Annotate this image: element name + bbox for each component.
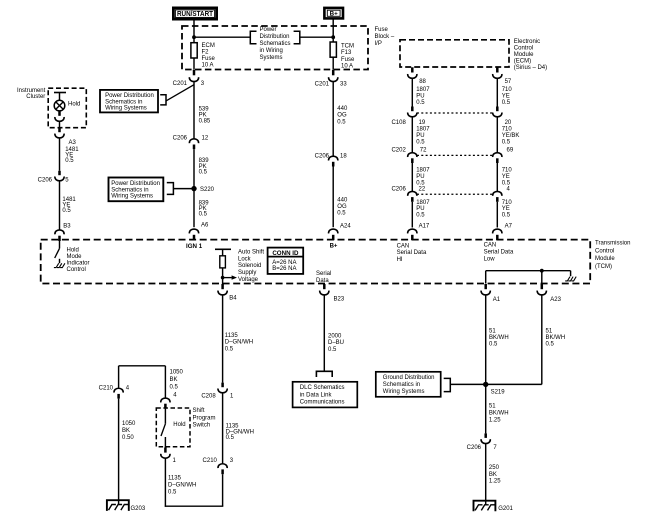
wire fuse F2 down to C201 [193,58,195,70]
wire 710 YE/BK (C108 to C202) [497,117,519,152]
wire C210-3 down to shift switch net [165,474,224,506]
svg-text:Ground Distribution: Ground Distribution [383,375,435,381]
svg-text:F2: F2 [202,50,210,56]
svg-text:Hold: Hold [173,422,185,428]
svg-text:72: 72 [420,148,427,154]
svg-text:1135: 1135 [168,475,182,481]
svg-text:YE: YE [502,206,510,212]
svg-text:0.5: 0.5 [489,342,498,348]
svg-text:710: 710 [502,200,513,206]
svg-text:TCM: TCM [341,43,354,49]
svg-text:C206: C206 [467,445,482,451]
label Fuse Block - I/P [375,27,395,47]
hold mode indicator switch inside TCM [55,241,60,263]
svg-text:Hold: Hold [68,101,80,107]
svg-text:Shift: Shift [193,408,205,414]
svg-text:0.5: 0.5 [416,213,425,219]
svg-text:A17: A17 [419,223,430,229]
connector A3 below cluster [55,127,77,146]
CONN ID table [268,248,304,274]
svg-text:S219: S219 [491,389,506,395]
svg-text:Systems: Systems [260,55,283,61]
svg-text:Fuse: Fuse [375,27,389,33]
ground G203 [107,500,146,512]
splice S219 [483,382,505,396]
bracket of ground distribution callout [444,378,451,391]
wire 1481 YE 0.5 upper [60,138,80,171]
svg-text:A7: A7 [505,223,513,229]
shift program switch dashed box [156,408,190,447]
svg-text:1.25: 1.25 [489,418,501,424]
connector C208 pin 1 [201,383,234,400]
svg-text:57: 57 [505,79,512,85]
svg-text:88: 88 [419,79,426,85]
svg-text:440: 440 [337,198,348,204]
svg-text:G201: G201 [498,506,513,512]
label Auto Shift Lock Solenoid Supply Voltage [238,249,264,282]
svg-text:1050: 1050 [122,421,136,427]
connector C210 pin 3 [203,458,234,474]
label Electronic Control Module (ECM) [514,39,547,71]
wire 1807 PU (C202 to C206) [412,163,430,191]
svg-text:BK/WH: BK/WH [546,335,566,341]
internal connection at hold mode switch [54,263,59,267]
svg-text:Electronic: Electronic [514,39,540,45]
svg-text:51: 51 [546,328,553,334]
DLC harness fork [316,371,332,377]
svg-text:IGN 1: IGN 1 [186,243,203,250]
svg-text:OG: OG [337,113,347,119]
wire callout to S219 [451,383,486,385]
svg-text:C206: C206 [391,187,406,193]
svg-text:C201: C201 [173,81,188,87]
svg-text:1135: 1135 [225,333,239,339]
svg-text:A1: A1 [493,297,501,303]
junction on B+ feed [331,35,335,39]
svg-text:Transmission: Transmission [595,240,630,246]
wire 51 BK/WH 1.25 [486,384,509,433]
svg-text:BK/WH: BK/WH [489,411,509,417]
connector C206 pins 22/4 [391,187,510,202]
svg-text:BK: BK [170,377,178,383]
svg-text:B23: B23 [334,296,345,302]
svg-text:D–GN/WH: D–GN/WH [168,482,196,488]
svg-text:Solenoid: Solenoid [238,263,261,269]
terminal A1 connector [481,284,501,303]
junction on RUN/START feed [192,35,196,39]
wire 440 OG 0.5 upper [333,82,348,156]
wire 1050 net top link [119,366,184,398]
wire callout to S220 [173,188,194,190]
svg-text:12: 12 [202,136,209,142]
svg-text:0.5: 0.5 [502,139,511,145]
svg-text:Power: Power [260,27,277,33]
svg-text:PU: PU [416,93,424,99]
svg-text:10 A: 10 A [202,62,214,68]
svg-text:Wiring Systems: Wiring Systems [383,389,425,395]
terminal B3 connector at TCM [55,230,64,241]
svg-text:0.5: 0.5 [226,435,235,441]
connector C206 pin 7 [467,433,498,451]
switch contacts and blade [161,409,186,448]
svg-text:C206: C206 [315,154,330,160]
wire 710 YE (C202 to C206) [497,163,512,191]
svg-text:Fuse: Fuse [202,56,216,62]
electronic control module ECM dashed box [400,40,509,67]
terminal B4 connector [218,284,237,301]
callout DLC Schematics box [293,382,358,408]
svg-text:1.25: 1.25 [489,479,501,485]
svg-text:0.5: 0.5 [416,180,425,186]
wire RUN/START to fuse F2 [193,19,195,43]
svg-text:Hold: Hold [67,247,79,253]
svg-text:1807: 1807 [416,200,430,206]
svg-text:OG: OG [337,204,347,210]
wire 1135 D-GN/WH 0.5 (C208 to C210) [223,393,254,463]
wire 51 BK/WH 0.5 (A1) [486,295,509,384]
connector C108 pins 19/20 [391,107,511,127]
svg-text:B4: B4 [229,295,237,301]
svg-text:0.5: 0.5 [170,385,179,391]
svg-text:A6: A6 [201,223,209,229]
connector C206 pin 12 [173,136,209,150]
bracket left of fuse-block callout [250,31,256,43]
svg-text:PU: PU [416,174,424,180]
svg-text:CAN: CAN [484,242,497,248]
label CAN Serial Data HI [397,243,427,263]
svg-text:Fuse: Fuse [341,57,355,63]
svg-text:Power Distribution: Power Distribution [111,181,160,187]
wire 440 OG 0.5 lower [333,167,351,230]
svg-text:in Wiring: in Wiring [260,48,283,54]
svg-text:A23: A23 [550,297,561,303]
svg-text:0.5: 0.5 [328,347,337,353]
svg-text:ECM: ECM [202,43,215,49]
svg-text:Communications: Communications [300,400,345,406]
svg-text:B3: B3 [63,224,71,230]
svg-text:33: 33 [340,82,347,88]
svg-text:Control: Control [595,248,614,254]
wire callout to F13 junction [300,36,333,38]
svg-text:(ECM): (ECM) [514,59,531,65]
lead line callout to wire 539 [166,85,194,101]
instrument cluster dashed box [48,88,86,128]
svg-text:B+: B+ [330,243,338,249]
wire B+ to fuse F13 [332,18,334,42]
svg-text:D–GN/WH: D–GN/WH [225,340,253,346]
svg-text:BK/WH: BK/WH [489,335,509,341]
svg-text:0.5: 0.5 [62,208,71,214]
svg-text:Serial: Serial [316,271,331,277]
svg-text:710: 710 [502,168,513,174]
svg-text:D–BU: D–BU [328,340,344,346]
svg-text:PU: PU [416,133,424,139]
svg-text:YE: YE [502,174,510,180]
label Hold Mode Indicator Control [67,247,90,273]
svg-text:YE: YE [502,93,510,99]
callout Power Distribution (fuse block) [260,27,291,61]
svg-text:C108: C108 [391,120,406,126]
svg-text:Power Distribution: Power Distribution [105,93,154,99]
terminal A23 connector [537,284,561,303]
svg-text:Low: Low [484,257,496,263]
terminal B23 connector [320,284,345,302]
wire bar to hold lamp [59,93,61,101]
wire 1481 YE 0.5 lower [60,181,77,230]
wire 839 PK 0.5 lower [194,189,209,229]
ECM pin 57 connector [493,67,512,85]
connector C201 pin 3 [173,70,205,87]
svg-text:Cluster: Cluster [26,94,45,100]
svg-text:1807: 1807 [416,87,430,93]
wire 1807 PU (C108 to C202) [412,117,430,152]
svg-text:A3: A3 [69,140,77,146]
svg-text:22: 22 [419,187,426,193]
fuse F13 TCM 10A [330,42,355,70]
svg-text:(Sirius – D4): (Sirius – D4) [514,65,547,71]
label Instrument Cluster [17,88,46,100]
connector C206 pin 18 [315,154,348,167]
svg-text:Control: Control [514,46,533,52]
wire lamp to cluster connector [59,111,61,116]
wire 710 YE (C206 to TCM A7) [497,200,512,229]
svg-text:Wiring Systems: Wiring Systems [111,194,153,200]
connector C210 pin 4 [99,385,130,398]
bracket of mid-left callout [167,183,174,195]
auto shift lock solenoid driver [215,249,237,284]
wire 539 PK 0.85 [194,82,211,139]
svg-text:Schematics in: Schematics in [111,187,148,193]
svg-text:Module: Module [514,52,534,58]
wire 1807 PU (ECM to C108) [412,79,430,107]
svg-text:Supply: Supply [238,270,256,276]
wire 2000 D-BU 0.5 [324,295,344,371]
svg-text:Data: Data [316,278,329,284]
wire 1807 PU (C206 to TCM A17) [412,200,430,229]
transmission control module TCM dashed box [41,240,591,284]
svg-text:YE/BK: YE/BK [502,133,520,139]
svg-text:Distribution: Distribution [260,34,290,40]
svg-text:C210: C210 [203,458,218,464]
svg-text:1050: 1050 [170,370,184,376]
terminal A6 connector at TCM IGN1 [189,229,198,240]
internal connection at CAN low bus [565,277,570,281]
svg-text:C206: C206 [173,136,188,142]
svg-text:0.85: 0.85 [199,118,211,124]
svg-text:20: 20 [505,120,512,126]
svg-text:0.5: 0.5 [502,213,511,219]
svg-text:0.5: 0.5 [225,346,234,352]
wire fuse F13 down to C201 [332,57,334,69]
terminal A24 connector at TCM [329,229,338,240]
svg-text:0.5: 0.5 [168,489,177,495]
svg-text:69: 69 [507,148,514,154]
wire F2 junction to callout [194,36,250,38]
terminal A17 connector at TCM [408,229,417,240]
svg-text:I/P: I/P [375,41,382,47]
svg-text:250: 250 [489,465,500,471]
svg-text:0.5: 0.5 [416,139,425,145]
svg-text:Mode: Mode [67,254,83,260]
cluster-side connector half [55,112,64,122]
svg-text:in Data Link: in Data Link [300,392,333,398]
svg-text:51: 51 [489,328,496,334]
power tag RUN/START [173,8,216,19]
svg-text:A24: A24 [340,224,351,230]
svg-text:Schematics: Schematics [260,41,291,47]
wire through cluster box edge [59,122,61,128]
svg-text:0.5: 0.5 [546,342,555,348]
bracket of upper-left callout [160,95,166,105]
indicator lamp HOLD [54,100,80,111]
svg-text:Block –: Block – [375,34,395,40]
fuse F2 ECM 10A [191,43,216,69]
svg-text:Auto Shift: Auto Shift [238,249,264,255]
wire 1050 BK 0.50 [119,399,136,505]
svg-text:Switch: Switch [193,423,211,429]
connector C201 pin 33 [315,70,348,88]
svg-text:Program: Program [193,415,216,421]
svg-text:19: 19 [419,120,426,126]
battery feed bar in cluster [54,92,66,94]
svg-text:C202: C202 [391,148,406,154]
bracket right of fuse-block callout [294,31,300,43]
svg-text:C208: C208 [201,393,216,399]
svg-text:0.5: 0.5 [502,100,511,106]
internal ground bus CAN low [486,269,571,284]
svg-text:0.5: 0.5 [199,170,208,176]
connector C202 pins 72/69 [391,148,513,164]
svg-text:Schematics in: Schematics in [105,99,142,105]
svg-text:0.5: 0.5 [337,211,346,217]
svg-text:BK: BK [489,472,497,478]
wire 250 BK 1.25 [486,444,502,506]
ground G201 [474,501,514,512]
svg-text:Schematics in: Schematics in [383,382,420,388]
svg-text:(TCM): (TCM) [595,264,612,270]
svg-text:440: 440 [337,106,348,112]
connector C206 pin 5 [38,171,70,184]
callout Power Distribution mid-left [109,178,164,202]
wire 710 YE (ECM to C108) [497,79,512,107]
svg-text:10 A: 10 A [341,64,353,70]
svg-text:RUN/START: RUN/START [177,11,214,18]
svg-text:1807: 1807 [416,168,430,174]
wire 1135 D-GN/WH 0.5 from switch [165,458,196,506]
callout Ground Distribution box [376,372,441,397]
fuse block I/P dashed box [182,26,368,70]
svg-text:51: 51 [489,404,496,410]
label Transmission Control Module (TCM) [595,240,630,270]
wire 839 PK 0.5 upper [194,149,209,188]
svg-text:S220: S220 [200,187,215,193]
svg-text:Control: Control [67,267,86,273]
svg-text:B=26 NA: B=26 NA [272,266,296,272]
svg-text:1807: 1807 [416,127,430,133]
wire 1135 D-GN/WH 0.5 (B4 to C208) [223,295,254,382]
label Shift Program Switch [193,408,216,428]
svg-text:710: 710 [502,87,513,93]
svg-text:18: 18 [340,154,347,160]
terminal A7 connector at TCM [493,229,502,240]
wire 51 BK/WH 0.5 (A23) [486,295,565,384]
svg-text:0.5: 0.5 [416,100,425,106]
svg-text:Module: Module [595,256,615,262]
svg-text:PU: PU [416,206,424,212]
svg-text:F13: F13 [341,50,352,56]
power tag B+ [324,8,343,19]
connector pin 1 below shift switch [161,448,177,465]
callout Power Distribution upper-left [100,90,158,113]
svg-text:B+: B+ [330,11,338,18]
svg-text:0.5: 0.5 [65,158,74,164]
svg-text:0.50: 0.50 [122,435,134,441]
splice S220 [191,186,214,193]
svg-text:C210: C210 [99,385,114,391]
svg-text:Lock: Lock [238,256,252,262]
svg-text:HI: HI [397,257,403,263]
svg-text:0.5: 0.5 [502,180,511,186]
svg-text:C206: C206 [38,177,53,183]
svg-text:CONN ID: CONN ID [272,250,299,257]
svg-text:Serial Data: Serial Data [397,250,427,256]
connector pin 4 at shift program switch [161,392,177,408]
svg-text:DLC Schematics: DLC Schematics [300,385,345,391]
label Serial Data inside TCM [316,271,331,284]
svg-text:CAN: CAN [397,243,410,249]
label CAN Serial Data Low [484,242,514,262]
svg-text:Wiring Systems: Wiring Systems [105,106,147,112]
svg-text:2000: 2000 [328,333,342,339]
svg-text:0.5: 0.5 [337,119,346,125]
svg-text:Indicator: Indicator [67,261,90,267]
svg-text:G203: G203 [131,506,146,512]
svg-text:710: 710 [502,127,513,133]
ECM pin 88 connector [408,67,427,85]
svg-text:Serial Data: Serial Data [484,250,514,256]
svg-text:0.5: 0.5 [199,212,208,218]
svg-text:C201: C201 [315,82,330,88]
svg-text:Voltage: Voltage [238,277,259,283]
svg-text:BK: BK [122,428,130,434]
